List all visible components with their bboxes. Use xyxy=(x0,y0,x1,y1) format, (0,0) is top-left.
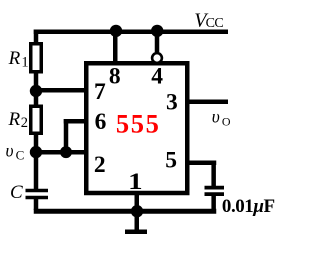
svg-text:5: 5 xyxy=(165,148,177,174)
svg-text:6: 6 xyxy=(95,109,107,135)
svg-text:4: 4 xyxy=(151,63,163,89)
svg-text:2: 2 xyxy=(21,115,28,131)
svg-text:C: C xyxy=(16,147,25,162)
svg-text:R: R xyxy=(8,48,21,69)
svg-text:CC: CC xyxy=(206,16,224,31)
svg-text:υ: υ xyxy=(212,106,220,126)
svg-text:C: C xyxy=(10,182,23,203)
svg-text:3: 3 xyxy=(166,90,178,116)
svg-text:7: 7 xyxy=(94,79,106,105)
svg-text:2: 2 xyxy=(94,152,106,178)
svg-text:O: O xyxy=(222,114,231,128)
svg-text:555: 555 xyxy=(116,108,161,138)
svg-text:8: 8 xyxy=(109,63,121,89)
svg-text:1: 1 xyxy=(128,169,143,195)
svg-text:υ: υ xyxy=(6,141,14,161)
svg-text:0.01μF: 0.01μF xyxy=(222,196,275,217)
svg-text:R: R xyxy=(8,109,21,130)
svg-text:1: 1 xyxy=(21,55,28,71)
